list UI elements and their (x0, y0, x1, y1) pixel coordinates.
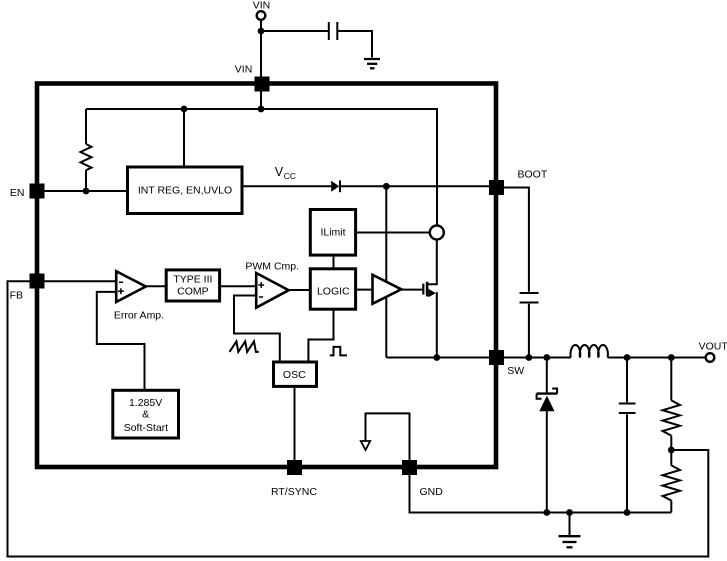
wire divider tap feedback to FB (8, 281, 709, 556)
svg-text:EN: EN (10, 187, 25, 199)
svg-text:V: V (275, 165, 284, 179)
svg-text:LOGIC: LOGIC (317, 286, 350, 298)
block INT REG, EN,UVLO U1 (128, 167, 243, 214)
svg-text:Error Amp.: Error Amp. (114, 309, 164, 321)
diode D1 Vcc to BOOT (331, 181, 339, 192)
block 1.285V soft-start reference (113, 390, 179, 438)
svg-text:CC: CC (284, 171, 296, 181)
wire Vcc junction down to SW line (385, 186, 387, 357)
svg-text:BOOT: BOOT (518, 169, 548, 181)
wire PWM comparator inverting input to OSC (234, 296, 280, 363)
svg-text:OSC: OSC (283, 369, 306, 381)
transistor Q1 power MOSFET (422, 284, 424, 295)
wire VOUT line to divider (670, 358, 672, 401)
node junction SW-diode (543, 354, 550, 361)
resistor R2 feedback lower (670, 450, 672, 465)
wire FB pin to error amp inverting input (45, 280, 117, 282)
wire output cap down (626, 358, 628, 403)
wire gate driver to MOSFET gate (401, 289, 422, 291)
svg-text:SW: SW (507, 365, 524, 377)
svg-text:TYPE III: TYPE III (173, 274, 212, 286)
wire BOOT pin to boot capacitor (504, 188, 529, 292)
capacitor output C3 (619, 403, 636, 405)
wire internal top rail (86, 109, 437, 226)
svg-text:1.285V: 1.285V (129, 397, 162, 409)
ground earth top (364, 59, 380, 68)
wire junction to input capacitor (261, 30, 328, 32)
node junction divider tap (668, 447, 675, 454)
wire INT REG to diode (242, 185, 331, 187)
wire ILimit to LOGIC (333, 255, 335, 269)
node junction VIN-cap (258, 28, 265, 35)
wire SW pin to output line (504, 357, 571, 359)
wire GND pin to ground rail (410, 475, 672, 513)
wire diode to BOOT pin (340, 185, 489, 187)
sawtooth ramp symbol (230, 341, 259, 352)
ground internal arrow (366, 413, 410, 460)
capacitor boot C2 (520, 292, 539, 294)
current source circle (430, 226, 444, 240)
svg-text:GND: GND (420, 486, 444, 498)
wire capacitor to ground (337, 31, 372, 58)
wire current source to MOSFET drain (428, 240, 437, 285)
wire LOGIC output to gate driver (356, 289, 373, 291)
svg-text:Soft-Start: Soft-Start (124, 422, 168, 434)
resistor EN pull-up (81, 144, 92, 170)
IC outline box (37, 84, 496, 468)
svg-text:ILimit: ILimit (320, 226, 345, 238)
wire ground stub (569, 513, 571, 536)
node junction L-divider (668, 354, 675, 361)
wire error amp output to TYPE III COMP (146, 285, 166, 287)
wire boot capacitor to SW line (528, 304, 530, 358)
svg-text:COMP: COMP (177, 286, 209, 298)
wire LOGIC to OSC (308, 309, 333, 362)
wire INT REG top to rail (183, 109, 185, 167)
svg-text:&: & (142, 409, 149, 421)
block LOGIC (310, 269, 355, 309)
wire internal SW line (386, 357, 489, 359)
node junction rail-diode (543, 509, 550, 516)
svg-text:INT REG, EN,UVLO: INT REG, EN,UVLO (138, 185, 232, 197)
node junction rail-cout (624, 509, 631, 516)
block ILimit (310, 210, 355, 256)
node junction L-Cout (624, 354, 631, 361)
wire ILimit to current source (356, 232, 430, 234)
node junction MOSFET source-SW (433, 354, 440, 361)
svg-text:PWM Cmp.: PWM Cmp. (245, 261, 299, 273)
op-amp error amplifier (116, 271, 146, 302)
wire EN pin to INT REG (45, 190, 128, 192)
wire OSC to RT/SYNC pin (294, 386, 296, 460)
wire SW to schottky diode (546, 358, 548, 394)
inductor L1 (570, 345, 607, 358)
pulse waveform symbol (330, 347, 347, 356)
wire VIN pin to internal rail (260, 91, 262, 109)
buffer gate driver (373, 275, 402, 304)
node junction SW-bootcap (526, 354, 533, 361)
resistor R1 feedback upper (663, 400, 680, 435)
diode D2 schottky catch (537, 392, 558, 394)
node junction rail-ground (566, 509, 573, 516)
wire resistor to EN line (85, 170, 87, 191)
node junction rail-intreg (181, 106, 188, 113)
node junction EN-resistor (83, 188, 90, 195)
node junction Vcc-boot (383, 183, 390, 190)
wire R1 to divider node (670, 436, 672, 450)
block TYPE III COMP (166, 270, 219, 301)
capacitor input bypass (328, 22, 330, 40)
wire schottky to ground rail (546, 411, 548, 512)
wire error amp noninverting to 1.285V block (97, 292, 145, 390)
svg-text:VIN: VIN (235, 64, 253, 76)
wire inductor to VOUT (608, 357, 706, 359)
wire VIN terminal to VIN pin (260, 20, 262, 77)
svg-text:VIN: VIN (253, 0, 271, 12)
svg-text:VOUT: VOUT (699, 341, 727, 353)
wire rail to resistor (85, 109, 87, 144)
wire PWM comparator output to LOGIC (289, 289, 310, 291)
node junction rail-vin (258, 106, 265, 113)
svg-text:FB: FB (10, 290, 23, 302)
wire TYPE III COMP to PWM comparator (220, 285, 257, 287)
svg-text:RT/SYNC: RT/SYNC (271, 486, 317, 498)
wire output cap to ground rail (626, 414, 628, 512)
ground earth bottom (559, 536, 581, 547)
block OSC (274, 362, 317, 386)
